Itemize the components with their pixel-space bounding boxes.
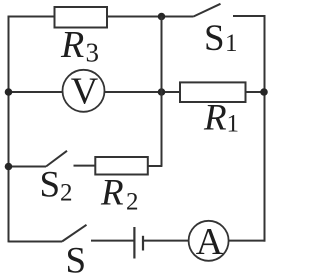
wire: [9, 91, 63, 93]
wire middle vertical: [161, 17, 163, 167]
svg-text:2: 2: [126, 189, 139, 216]
svg-text:R: R: [100, 173, 124, 214]
wire: [105, 91, 181, 93]
node left junction row3: [5, 163, 13, 171]
svg-text:2: 2: [60, 180, 73, 207]
node middle junction row2: [158, 88, 166, 96]
svg-text:A: A: [196, 221, 224, 263]
wire: [8, 16, 55, 18]
wire: [148, 165, 163, 167]
svg-text:S: S: [40, 165, 61, 206]
node right junction row2: [260, 88, 268, 96]
svg-text:S: S: [204, 18, 225, 59]
switch S2: [40, 151, 96, 207]
battery cell: [134, 227, 143, 259]
wire: [143, 240, 189, 242]
svg-text:V: V: [71, 71, 99, 113]
svg-text:3: 3: [86, 38, 100, 68]
svg-text:1: 1: [227, 111, 240, 138]
resistor R1: [180, 82, 246, 138]
wire: [107, 16, 194, 18]
switch S: [62, 225, 134, 274]
wire: [246, 91, 265, 93]
svg-text:R: R: [60, 24, 84, 66]
node left junction row2: [5, 88, 13, 96]
svg-text:1: 1: [225, 30, 238, 57]
voltmeter V: [63, 70, 105, 113]
resistor R3: [55, 7, 108, 68]
wire: [229, 240, 266, 242]
svg-text:S: S: [66, 241, 87, 274]
ammeter A: [189, 221, 229, 263]
wire: [8, 16, 10, 243]
svg-text:R: R: [203, 98, 227, 139]
switch S1: [194, 4, 266, 59]
wire: [9, 241, 63, 243]
wire: [264, 15, 266, 242]
wire: [9, 166, 47, 168]
resistor R2: [95, 157, 148, 216]
node top-middle junction: [158, 13, 166, 21]
